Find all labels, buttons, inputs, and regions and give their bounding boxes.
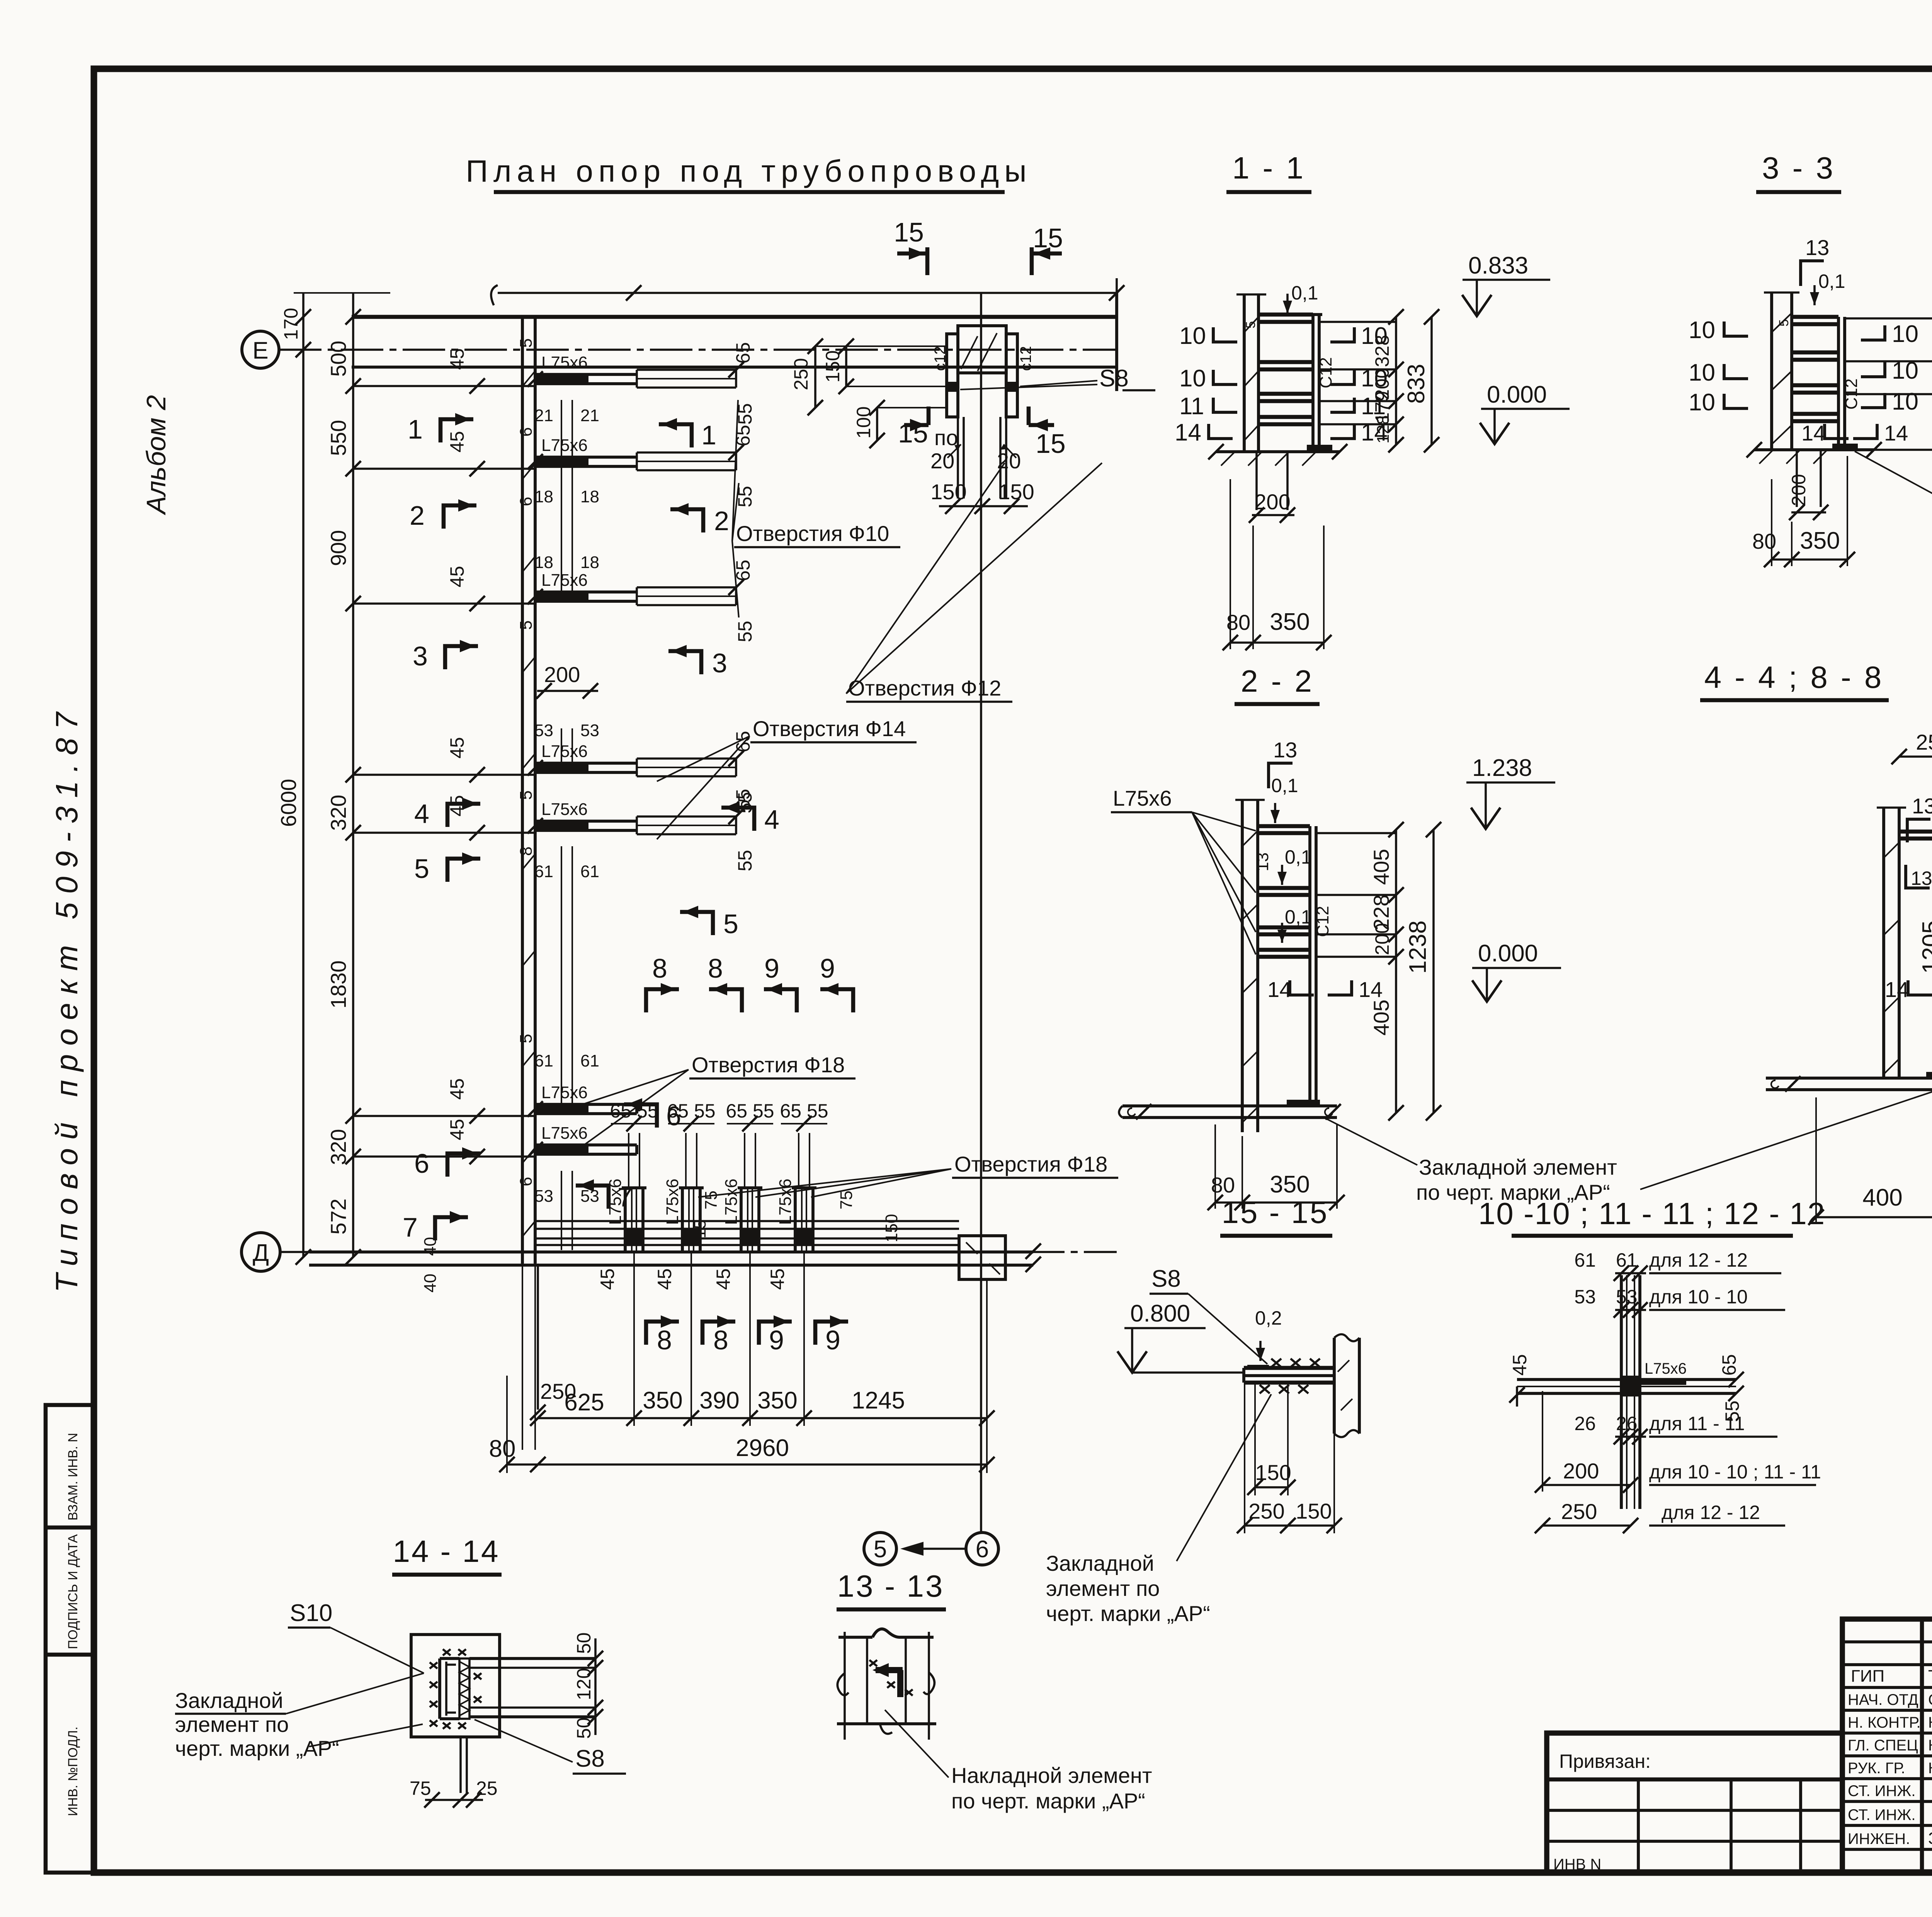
bottom dims 2-2	[1214, 1124, 1216, 1209]
svg-text:9: 9	[825, 1325, 840, 1355]
svg-text:Д: Д	[253, 1240, 269, 1266]
svg-text:СТ. ИНЖ.: СТ. ИНЖ.	[1848, 1783, 1915, 1800]
svg-text:0,1: 0,1	[1271, 775, 1298, 796]
svg-text:10: 10	[1892, 388, 1918, 415]
bottom dims 1-1	[1230, 479, 1231, 649]
svg-text:572: 572	[326, 1199, 350, 1235]
top shelf 4-4	[1899, 830, 1932, 834]
axis D beam	[309, 1237, 1041, 1293]
svg-text:с12: с12	[1017, 346, 1034, 371]
dim column 2-2	[1395, 830, 1397, 1113]
svg-text:6: 6	[517, 1177, 536, 1186]
svg-text:РУК. ГР.: РУК. ГР.	[1848, 1760, 1905, 1777]
svg-text:50: 50	[573, 1632, 595, 1654]
section mark row6 right	[624, 1098, 681, 1131]
svg-text:СВЕТЛИЧНЫЙ: СВЕТЛИЧНЫЙ	[1928, 1691, 1932, 1708]
svg-text:7: 7	[403, 1212, 418, 1242]
left margin rotated captions	[49, 395, 171, 1293]
privyazan box	[1547, 1733, 1842, 1873]
svg-text:13: 13	[1273, 738, 1297, 762]
svg-text:53: 53	[1616, 1286, 1638, 1308]
svg-text:8: 8	[713, 1325, 728, 1355]
svg-text:4: 4	[414, 799, 429, 829]
anchor bolts 3-3	[1796, 450, 1798, 507]
bottom support 2	[654, 1116, 714, 1290]
svg-text:КАПИТУЛЬСКИЙ: КАПИТУЛЬСКИЙ	[1928, 1736, 1932, 1754]
slab lines 3-3	[1845, 317, 1932, 320]
embedded channel of 14-14	[438, 1658, 441, 1719]
svg-text:0,1: 0,1	[1285, 906, 1312, 928]
svg-text:5: 5	[874, 1536, 887, 1563]
svg-text:4: 4	[764, 805, 779, 835]
svg-text:405: 405	[1369, 1000, 1393, 1036]
svg-text:ЗИНЧЕНКО: ЗИНЧЕНКО	[1928, 1829, 1932, 1848]
section 15 cut marks bottom	[898, 407, 1066, 459]
svg-text:6: 6	[414, 1148, 429, 1179]
svg-text:200: 200	[1788, 474, 1810, 506]
svg-text:Отверстия Ф18: Отверстия Ф18	[692, 1053, 845, 1077]
bolt centre lines rows 4-5	[534, 721, 599, 773]
shelves 1-1	[1259, 313, 1313, 317]
svg-text:по черт. марки „АР“: по черт. марки „АР“	[951, 1789, 1145, 1813]
support row 1	[446, 342, 756, 425]
svg-text:13: 13	[1912, 794, 1932, 818]
column 1-1	[1243, 294, 1246, 452]
svg-text:53: 53	[1574, 1286, 1596, 1308]
dim 1238	[1432, 830, 1435, 1113]
grid bubble 6	[966, 1533, 998, 1565]
svg-text:1.238: 1.238	[1472, 755, 1532, 781]
svg-text:18: 18	[534, 553, 553, 572]
svg-text:900: 900	[326, 530, 350, 566]
svg-text:14: 14	[1885, 977, 1909, 1002]
svg-text:26: 26	[1616, 1413, 1638, 1434]
vertical member of 10-10	[1620, 1275, 1623, 1509]
section 15 cut marks top	[894, 217, 1063, 275]
svg-text:0.000: 0.000	[1487, 381, 1547, 408]
svg-text:ИНВ N: ИНВ N	[1553, 1856, 1601, 1873]
section mark row5 left	[414, 852, 480, 884]
plate of 15-15	[1244, 1366, 1334, 1370]
svg-text:80: 80	[1211, 1173, 1235, 1197]
svg-text:350: 350	[757, 1387, 797, 1414]
svg-text:Типовой проект 509-31.87: Типовой проект 509-31.87	[49, 704, 84, 1293]
column wall	[522, 317, 535, 1450]
svg-text:для 12 - 12: для 12 - 12	[1662, 1502, 1760, 1523]
svg-text:65 55: 65 55	[610, 1100, 658, 1122]
dim 26 26 of 11-11	[1615, 1436, 1646, 1438]
svg-text:1: 1	[408, 414, 423, 444]
250 dim at wall bottom	[530, 1264, 576, 1420]
bottom support top dims	[610, 1100, 901, 1242]
svg-text:200: 200	[1371, 923, 1393, 955]
grid line 6 vertical	[980, 293, 982, 1533]
svg-text:ИНВ. №ПОДЛ.: ИНВ. №ПОДЛ.	[66, 1726, 80, 1816]
svg-text:0,1: 0,1	[1818, 270, 1845, 292]
support row 6	[446, 1078, 637, 1124]
svg-text:S8: S8	[1099, 365, 1129, 392]
svg-text:Закладной: Закладной	[175, 1688, 283, 1713]
svg-text:150: 150	[1296, 1499, 1332, 1523]
svg-text:9: 9	[764, 953, 779, 983]
svg-text:250: 250	[1916, 730, 1932, 754]
svg-text:25: 25	[476, 1778, 498, 1799]
foundation of 4-4	[1766, 1077, 1932, 1080]
svg-text:S8: S8	[575, 1745, 605, 1772]
svg-text:14: 14	[1801, 421, 1825, 445]
section mark row4 right	[721, 801, 779, 835]
svg-text:для 12 - 12: для 12 - 12	[1649, 1249, 1748, 1271]
svg-text:21: 21	[580, 406, 599, 425]
svg-text:5: 5	[517, 791, 536, 800]
svg-text:250: 250	[1248, 1499, 1284, 1523]
svg-text:128: 128	[1374, 415, 1393, 444]
section mark row7 right	[576, 1179, 633, 1212]
svg-text:1: 1	[701, 420, 716, 450]
section mark row3 left	[413, 640, 478, 671]
channel C12 of 3-3	[1837, 317, 1840, 444]
bottom support 4	[767, 1116, 827, 1290]
anchor bolts 1-1	[1255, 452, 1258, 510]
svg-text:8: 8	[652, 953, 667, 983]
svg-text:80: 80	[1752, 529, 1776, 553]
svg-text:65: 65	[1718, 1354, 1740, 1376]
svg-text:8: 8	[657, 1325, 672, 1355]
support row 7	[446, 1119, 637, 1164]
svg-text:75: 75	[837, 1191, 856, 1209]
svg-text:S8: S8	[1151, 1266, 1181, 1292]
section mark row2 right	[670, 503, 729, 536]
svg-text:26: 26	[1574, 1413, 1596, 1434]
grid axis D	[241, 1233, 1117, 1271]
bottom dims 3-3	[1771, 479, 1772, 566]
svg-text:6: 6	[517, 497, 536, 506]
svg-text:Накладной элемент: Накладной элемент	[951, 1763, 1152, 1788]
svg-text:18: 18	[580, 553, 599, 572]
column 2-2	[1241, 800, 1244, 1132]
svg-text:150: 150	[822, 350, 844, 383]
leader label holes f18 lower	[698, 1152, 1118, 1197]
svg-text:КАПИТУЛЬСКИЙ: КАПИТУЛЬСКИЙ	[1928, 1713, 1932, 1731]
svg-text:40: 40	[421, 1274, 440, 1293]
svg-text:КОРСУНСКИЙ: КОРСУНСКИЙ	[1928, 1759, 1932, 1777]
svg-text:0.000: 0.000	[1478, 940, 1538, 967]
svg-text:L75x6: L75x6	[1645, 1360, 1687, 1377]
top dimension line of plan	[491, 278, 1124, 309]
svg-text:8: 8	[517, 847, 536, 856]
bottom dimension line 2960	[489, 1279, 995, 1473]
section mark row1 right	[659, 418, 716, 450]
svg-text:для 4-4: для 4-4	[1929, 1054, 1932, 1136]
svg-text:НАЧ. ОТД: НАЧ. ОТД	[1848, 1691, 1918, 1708]
svg-text:20: 20	[930, 449, 954, 473]
svg-text:5: 5	[1777, 319, 1791, 327]
wall weld numbers	[517, 338, 536, 1186]
svg-text:Отверстия Ф14: Отверстия Ф14	[753, 716, 906, 741]
base of 3-3	[1754, 448, 1874, 451]
svg-text:0.800: 0.800	[1130, 1300, 1190, 1327]
svg-text:61: 61	[580, 862, 599, 881]
svg-text:9: 9	[820, 953, 835, 983]
svg-text:СТ. ИНЖ.: СТ. ИНЖ.	[1848, 1806, 1915, 1823]
svg-text:черт. марки „АР“: черт. марки „АР“	[1046, 1601, 1210, 1626]
svg-text:11: 11	[1179, 393, 1204, 420]
svg-text:14: 14	[1359, 977, 1383, 1002]
column 3-3	[1770, 293, 1773, 450]
bolt centre lines rows 5-6	[534, 846, 599, 1108]
svg-text:0,2: 0,2	[1255, 1307, 1282, 1329]
svg-text:65 55: 65 55	[780, 1100, 828, 1122]
leader label holes f12	[846, 463, 1102, 702]
weld flags right 3-3	[1861, 325, 1885, 340]
svg-text:75: 75	[410, 1778, 431, 1799]
mid-plan cut marks 8 8 9 9	[646, 953, 853, 1012]
svg-text:320: 320	[326, 1129, 350, 1165]
svg-text:ТУРИНСКИЙ: ТУРИНСКИЙ	[1928, 1666, 1932, 1686]
svg-text:61: 61	[534, 1051, 553, 1070]
svg-text:ГЛ. СПЕЦ: ГЛ. СПЕЦ	[1848, 1737, 1918, 1754]
svg-text:Е: Е	[252, 337, 268, 364]
support row 5	[446, 789, 756, 871]
svg-text:5: 5	[723, 909, 738, 939]
svg-text:0.833: 0.833	[1468, 252, 1528, 279]
svg-text:170: 170	[280, 308, 302, 340]
svg-text:18: 18	[534, 487, 553, 506]
svg-text:10: 10	[1179, 365, 1206, 392]
svg-text:13 - 13: 13 - 13	[837, 1569, 944, 1603]
svg-text:элемент по: элемент по	[1046, 1576, 1160, 1601]
svg-text:3: 3	[712, 648, 727, 678]
leader label holes f14	[657, 716, 917, 839]
svg-text:Н. КОНТР.: Н. КОНТР.	[1848, 1714, 1921, 1731]
svg-text:45: 45	[1509, 1354, 1531, 1376]
200 dim under row3	[536, 662, 598, 699]
svg-text:для 10 - 10: для 10 - 10	[1649, 1286, 1748, 1308]
embedded element label between 2-2 and 4-4	[1326, 1088, 1932, 1204]
svg-text:15 - 15: 15 - 15	[1221, 1195, 1328, 1230]
dim 53 53 of 10-10	[1615, 1309, 1646, 1311]
svg-text:6: 6	[517, 427, 536, 437]
svg-text:План опор под трубопроводы: План опор под трубопроводы	[466, 154, 1032, 188]
svg-text:ВЗАМ. ИНВ. N: ВЗАМ. ИНВ. N	[66, 1433, 80, 1521]
svg-text:2: 2	[410, 500, 425, 531]
svg-text:61: 61	[580, 1051, 599, 1070]
bolt centre lines below row 7	[534, 1171, 599, 1250]
svg-text:10: 10	[1892, 357, 1918, 384]
svg-text:10: 10	[1689, 317, 1715, 344]
signature table verticals	[1920, 1619, 1924, 1872]
support row 2	[446, 425, 756, 507]
centre angle of 13-13	[876, 1667, 903, 1673]
svg-text:черт. марки „АР“: черт. марки „АР“	[175, 1736, 339, 1761]
svg-text:Отверстия Ф18: Отверстия Ф18	[954, 1152, 1107, 1176]
svg-text:6000: 6000	[276, 779, 301, 827]
longitudinal angles along axis D	[535, 1221, 959, 1245]
slab lines 2-2	[1316, 832, 1396, 834]
svg-text:5: 5	[517, 621, 536, 630]
dim 833	[1430, 317, 1433, 445]
150 150 dims below channels	[930, 480, 1034, 514]
plate square of 14-14	[411, 1635, 500, 1737]
weld x marks of 15-15	[1260, 1359, 1320, 1393]
section mark row2 left	[410, 499, 476, 531]
svg-text:21: 21	[534, 406, 553, 425]
column with channel pair at beam end (plan of 15-15)	[932, 326, 1034, 498]
svg-text:65 55: 65 55	[726, 1100, 774, 1122]
dim 200 of 10-10	[1542, 1391, 1543, 1492]
svg-text:200: 200	[1563, 1459, 1599, 1483]
bottom dimension line 625 350 390 350 1245	[530, 1251, 995, 1426]
shelves 3-3	[1792, 315, 1838, 319]
svg-text:1245: 1245	[852, 1387, 905, 1414]
right dims 50 120 50 of 14-14	[594, 1638, 597, 1735]
svg-text:500: 500	[326, 341, 350, 377]
grid bubble 5 with arrow	[864, 1533, 966, 1565]
svg-text:Закладной: Закладной	[1046, 1551, 1154, 1575]
svg-text:5: 5	[1243, 321, 1258, 328]
svg-text:14 - 14: 14 - 14	[393, 1534, 500, 1568]
svg-text:150: 150	[1255, 1460, 1291, 1485]
bolt centre lines rows 1-3	[534, 400, 599, 597]
svg-text:13: 13	[1253, 852, 1272, 871]
embedded element label between 3-3 and 7-7	[1855, 451, 1932, 526]
foundation of 2-2	[1122, 1104, 1337, 1107]
leader label holes f18 upper	[578, 1053, 855, 1150]
svg-text:2: 2	[714, 506, 729, 536]
svg-text:250: 250	[790, 358, 812, 390]
svg-text:для 11 - 11: для 11 - 11	[1649, 1413, 1745, 1434]
weld x marks of 14-14	[430, 1649, 481, 1729]
svg-text:80: 80	[1226, 610, 1250, 634]
signature table rows	[1842, 1640, 1932, 1643]
channel C12 of 2-2	[1308, 826, 1311, 1105]
svg-text:61: 61	[1574, 1249, 1596, 1271]
svg-text:L75x6: L75x6	[1113, 786, 1172, 810]
svg-text:4 - 4 ; 8 - 8: 4 - 4 ; 8 - 8	[1704, 660, 1884, 694]
svg-text:833: 833	[1403, 364, 1430, 404]
svg-text:Альбом 2: Альбом 2	[141, 395, 171, 515]
svg-text:8: 8	[708, 953, 723, 983]
svg-text:10: 10	[1689, 389, 1715, 416]
svg-text:13: 13	[1911, 867, 1932, 889]
leader label holes f10	[732, 400, 900, 617]
section mark row6 left	[414, 1147, 480, 1179]
dims left of channel pair	[790, 338, 947, 448]
svg-text:200: 200	[544, 662, 580, 687]
svg-text:400: 400	[1862, 1184, 1902, 1211]
dims of 15-15	[1254, 1383, 1256, 1495]
svg-text:53: 53	[534, 721, 553, 740]
support row 4	[446, 731, 756, 813]
svg-text:14: 14	[1884, 421, 1908, 445]
svg-text:350: 350	[1270, 1171, 1310, 1198]
svg-text:50: 50	[573, 1717, 595, 1739]
svg-text:С12: С12	[1313, 906, 1332, 937]
svg-text:150: 150	[930, 480, 966, 504]
svg-text:1205: 1205	[1918, 920, 1932, 974]
svg-text:100: 100	[853, 407, 874, 439]
bottom dim 400 of 4-4	[1815, 1097, 1817, 1224]
svg-text:75: 75	[702, 1191, 721, 1209]
svg-text:15: 15	[894, 217, 924, 247]
top dim 61 61 of 12-12	[1615, 1272, 1646, 1274]
angle bars of 14-14	[469, 1657, 595, 1660]
svg-text:5: 5	[517, 1034, 536, 1043]
channel C12 of 1-1	[1311, 315, 1315, 445]
section mark row4 left	[414, 798, 480, 829]
svg-text:18: 18	[580, 487, 599, 506]
column piece of 15-15	[1333, 1338, 1336, 1434]
svg-text:2960: 2960	[736, 1435, 789, 1461]
left inventory strip	[46, 1405, 94, 1873]
svg-text:53: 53	[534, 1187, 553, 1206]
section mark row1 left	[408, 413, 473, 444]
svg-text:53: 53	[580, 721, 599, 740]
svg-text:350: 350	[1270, 609, 1310, 635]
svg-text:625: 625	[564, 1389, 604, 1416]
svg-text:120: 120	[573, 1668, 595, 1700]
svg-text:10 -10 ; 11 - 11 ; 12 - 12: 10 -10 ; 11 - 11 ; 12 - 12	[1478, 1196, 1825, 1231]
svg-text:80: 80	[489, 1436, 516, 1462]
svg-text:550: 550	[326, 420, 350, 456]
svg-text:10: 10	[1892, 321, 1918, 347]
svg-text:по: по	[934, 425, 958, 450]
dim column small 1-1	[1395, 317, 1397, 445]
svg-text:с12: с12	[932, 346, 949, 371]
svg-text:Отверстия Ф12: Отверстия Ф12	[848, 676, 1001, 700]
bottom cut marks 8 8 9 9	[646, 1315, 848, 1355]
svg-text:0,1: 0,1	[1285, 846, 1312, 868]
svg-text:5: 5	[517, 338, 536, 348]
S8 label	[960, 365, 1155, 392]
main plan title	[466, 154, 1032, 192]
svg-text:200: 200	[1254, 490, 1290, 514]
bottom studs of 14-14	[459, 1737, 462, 1793]
svg-text:320: 320	[326, 795, 350, 831]
svg-text:ИНЖЕН.: ИНЖЕН.	[1848, 1830, 1910, 1847]
svg-text:Отверстия Ф10: Отверстия Ф10	[736, 521, 889, 546]
section mark row7 left	[403, 1211, 468, 1242]
svg-text:для 10 - 10 ; 11 - 11: для 10 - 10 ; 11 - 11	[1649, 1461, 1821, 1483]
svg-text:1 - 1: 1 - 1	[1232, 151, 1306, 185]
svg-text:1830: 1830	[326, 960, 350, 1009]
20 20 hole labels	[930, 444, 1021, 473]
svg-text:6: 6	[976, 1536, 989, 1563]
members of 13-13	[838, 1636, 872, 1639]
support row lines	[353, 386, 535, 1157]
svg-text:61: 61	[534, 862, 553, 881]
svg-text:14: 14	[1267, 977, 1291, 1002]
svg-text:Привязан:: Привязан:	[1559, 1750, 1651, 1772]
svg-text:элемент по: элемент по	[175, 1712, 289, 1737]
svg-text:Закладной элемент: Закладной элемент	[1419, 1155, 1617, 1179]
svg-text:390: 390	[699, 1387, 739, 1414]
section mark row5 right	[680, 906, 738, 939]
svg-text:1238: 1238	[1405, 920, 1431, 974]
left dimension chain outer 6000	[294, 292, 390, 1265]
weld flags right 1-1	[1330, 327, 1354, 342]
base of 1-1	[1216, 450, 1340, 453]
shelves 2-2	[1258, 824, 1310, 828]
horizontal member of 10-10	[1517, 1378, 1736, 1381]
svg-text:350: 350	[1800, 527, 1840, 554]
svg-text:250: 250	[1561, 1499, 1597, 1524]
wall hatch marks	[522, 371, 535, 1237]
svg-text:10: 10	[1179, 323, 1206, 349]
support row 3	[446, 560, 756, 642]
grid axis E	[242, 331, 1117, 368]
embedded plate at axis D end	[959, 1236, 1005, 1279]
